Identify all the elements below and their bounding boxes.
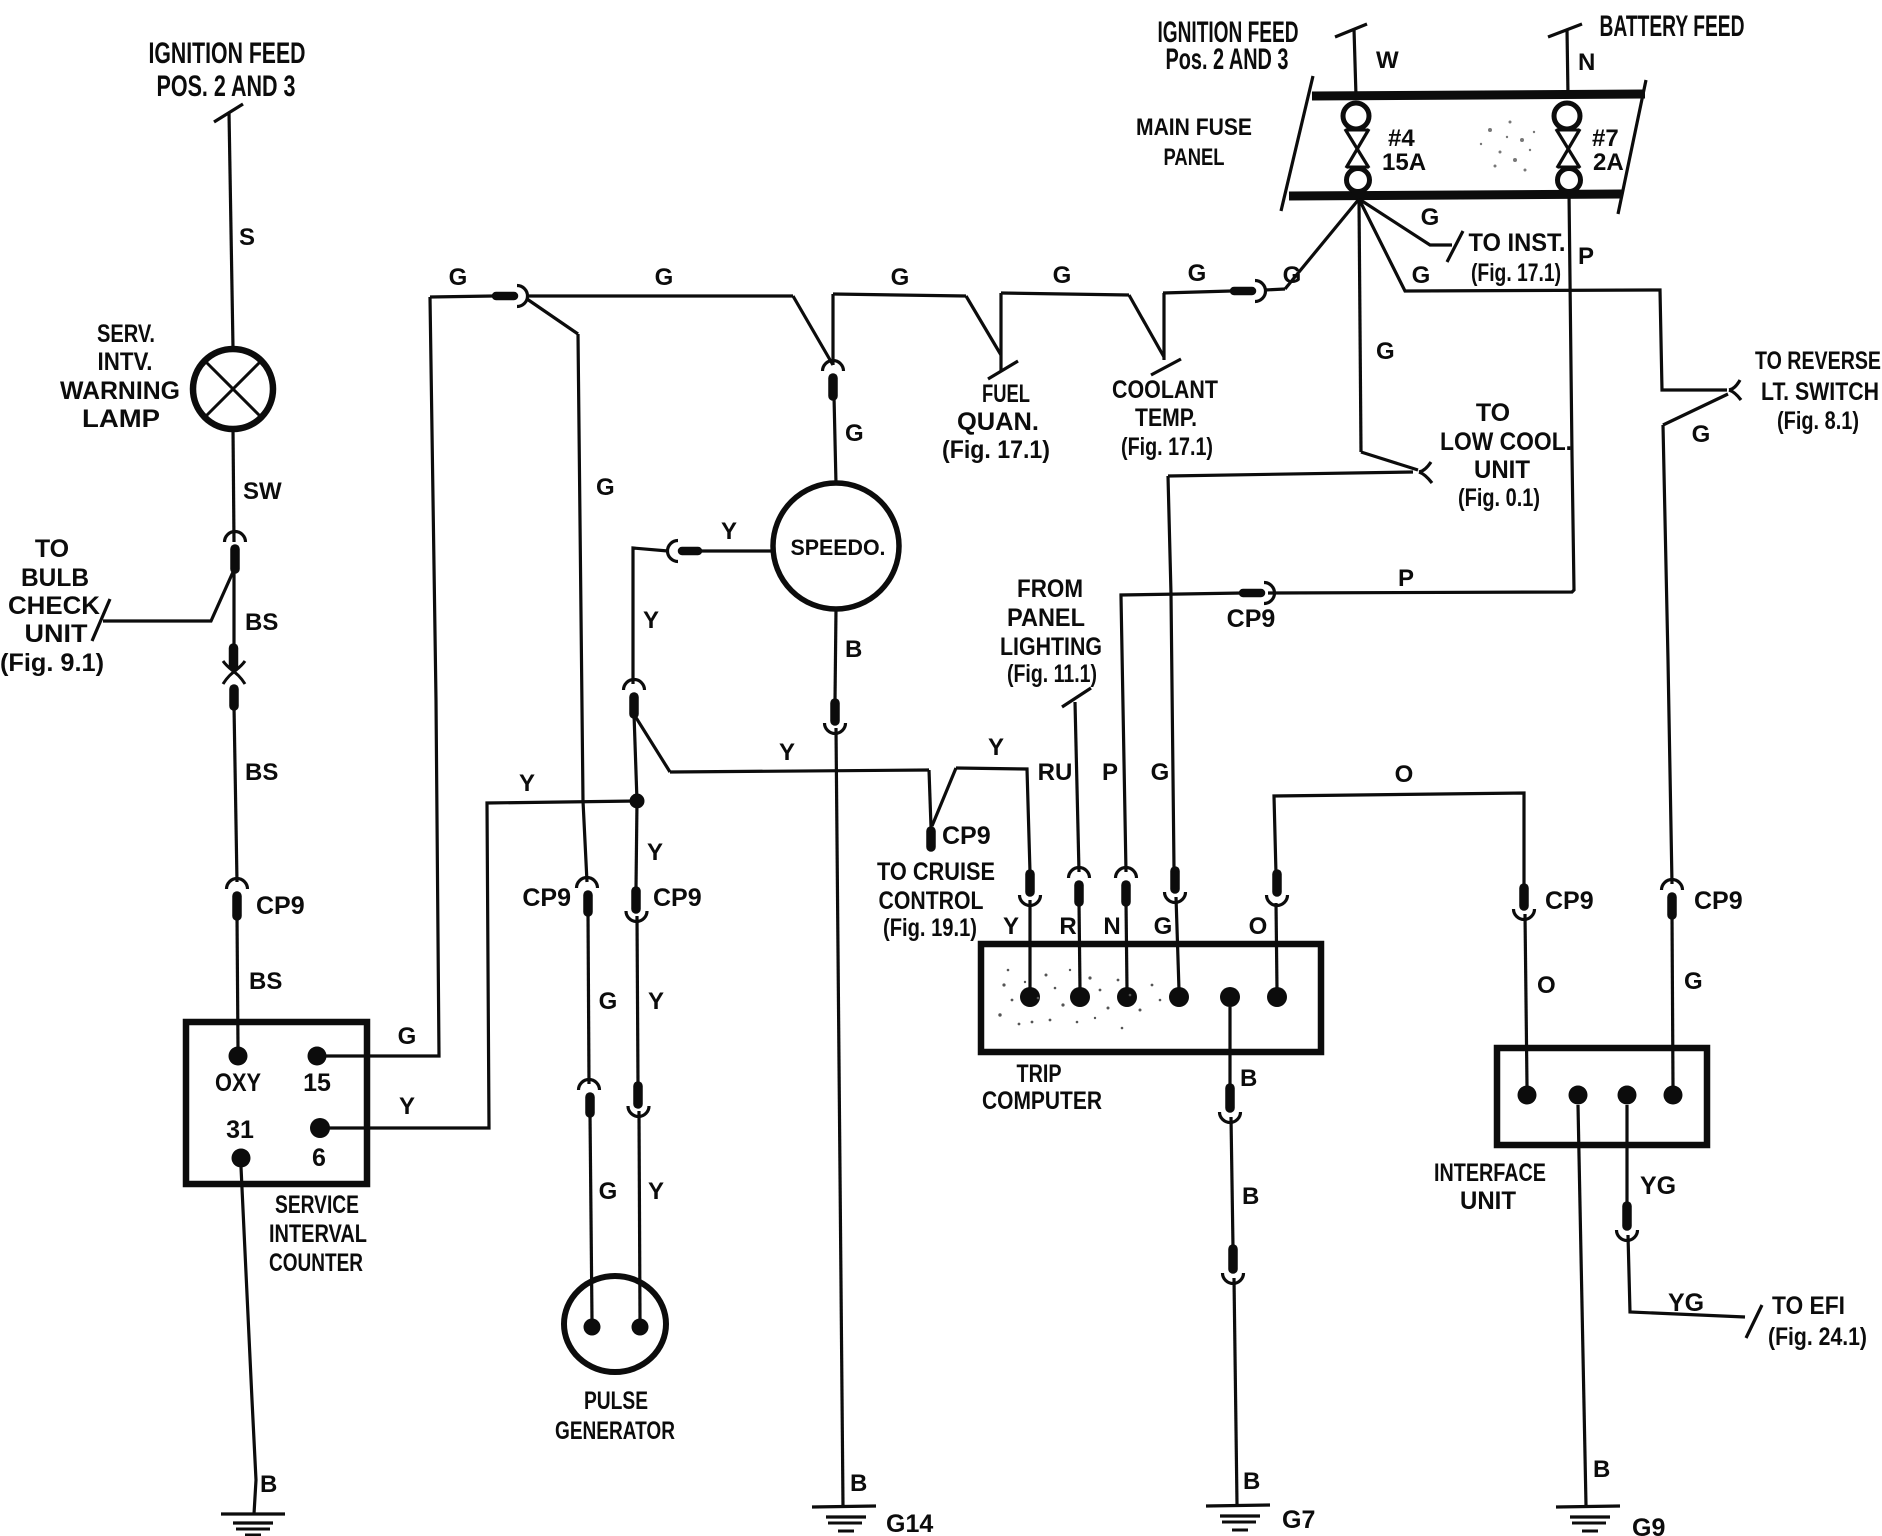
wire Y (down from speedo connector)	[633, 548, 668, 684]
svg-text:INTERVAL: INTERVAL	[269, 1220, 367, 1248]
terminal B (trip)	[1220, 987, 1240, 1007]
svg-text:YG: YG	[1640, 1172, 1676, 1200]
svg-text:CP9: CP9	[522, 884, 571, 912]
svg-text:G: G	[449, 264, 468, 291]
svg-text:LIGHTING: LIGHTING	[1000, 633, 1102, 661]
connector on trip G wire	[1165, 871, 1186, 903]
generator PULSE GENERATOR	[555, 1276, 675, 1445]
connector on speedo Y wire	[668, 541, 699, 562]
box INTERFACE UNIT	[1434, 1048, 1707, 1215]
wire G bus segment F (to fuse panel)	[1265, 199, 1359, 290]
connector CP9 on BS wire	[227, 879, 305, 920]
svg-text:G7: G7	[1282, 1506, 1315, 1534]
svg-text:B: B	[1243, 1468, 1260, 1495]
wire Y (fork to trip computer Y pin)	[956, 768, 1030, 872]
svg-text:Y: Y	[648, 988, 664, 1015]
wire G (CP9 to interface unit)	[1672, 915, 1703, 1086]
wire to bulb check unit	[92, 572, 233, 641]
wire G (reverse junction down to interface)	[1663, 394, 1728, 884]
svg-text:LT. SWITCH: LT. SWITCH	[1761, 378, 1879, 406]
svg-text:B: B	[1240, 1065, 1257, 1092]
wire Y bus (to trip computer)	[670, 739, 929, 772]
svg-text:G: G	[1692, 421, 1711, 448]
svg-text:TO INST.: TO INST.	[1469, 229, 1566, 257]
box SERVICE INTERVAL COUNTER	[186, 1022, 367, 1277]
svg-text:(Fig. 8.1): (Fig. 8.1)	[1777, 407, 1859, 435]
wire Y (counter 6 to junction)	[320, 770, 637, 1128]
connector CP9 on O wire	[1514, 887, 1594, 920]
connector on Y (lower)	[628, 1086, 649, 1117]
svg-text:LOW COOL.: LOW COOL.	[1440, 428, 1572, 456]
terminal 4 (interface, G)	[1664, 1086, 1683, 1105]
terminal G (trip)	[1169, 987, 1189, 1007]
wire Y (vertical through junction)	[634, 714, 637, 801]
node IGNITION FEED Pos. 2 AND 3 (right feed)	[1158, 16, 1299, 76]
wire B (speedo bottom)	[835, 609, 862, 701]
svg-text:G: G	[599, 988, 618, 1015]
connector on P wire (trip N pin)	[1116, 868, 1137, 903]
ground G7	[1206, 1505, 1315, 1534]
wire BS (middle)	[234, 706, 278, 882]
svg-text:P: P	[1102, 759, 1118, 786]
svg-text:SERV.: SERV.	[97, 320, 155, 348]
svg-text:PANEL: PANEL	[1164, 144, 1225, 171]
terminal N (trip)	[1117, 987, 1137, 1007]
svg-text:MAIN FUSE: MAIN FUSE	[1136, 114, 1252, 141]
node FROM PANEL LIGHTING (Fig. 11.1)	[1000, 575, 1102, 688]
ground G9	[1556, 1506, 1665, 1536]
connector on RU wire	[1069, 868, 1090, 903]
svg-text:GENERATOR: GENERATOR	[555, 1417, 675, 1445]
fuse #4 15A	[1343, 103, 1426, 192]
svg-text:QUAN.: QUAN.	[957, 408, 1039, 436]
svg-text:FROM: FROM	[1017, 575, 1083, 603]
wire G (fuse 4 to TO INST.)	[1359, 199, 1463, 262]
svg-text:POS. 2 AND 3: POS. 2 AND 3	[157, 70, 296, 103]
wire G (to speedo top)	[834, 396, 864, 484]
wire G (to pulse generator)	[590, 1113, 617, 1320]
lamp SERV. INTV. WARNING LAMP	[60, 320, 273, 433]
svg-text:B: B	[1242, 1183, 1259, 1210]
ground (below counter)	[221, 1514, 285, 1535]
svg-text:TO EFI: TO EFI	[1772, 1292, 1845, 1320]
svg-text:TO: TO	[35, 535, 69, 563]
node TO REVERSE LT. SWITCH (Fig. 8.1)	[1755, 347, 1881, 435]
svg-text:TO: TO	[1476, 399, 1510, 427]
wire G branch COOLANT TEMP.	[1129, 293, 1181, 375]
svg-text:P: P	[1398, 565, 1414, 592]
svg-text:COUNTER: COUNTER	[269, 1249, 363, 1277]
svg-text:S: S	[239, 224, 255, 251]
svg-text:TO CRUISE: TO CRUISE	[877, 858, 995, 886]
wire G (trip feed to low coolant connector)	[1168, 472, 1413, 476]
svg-text:(Fig. 19.1): (Fig. 19.1)	[883, 914, 977, 942]
svg-text:Y: Y	[721, 518, 737, 545]
svg-text:G: G	[1283, 262, 1302, 289]
svg-text:(Fig. 24.1): (Fig. 24.1)	[1768, 1323, 1867, 1351]
terminal 2 (interface, B)	[1569, 1086, 1588, 1105]
svg-text:G: G	[398, 1023, 417, 1050]
node IGNITION FEED POS. 2 AND 3 (left feed)	[149, 37, 306, 122]
wire G bus segment E	[1163, 260, 1231, 293]
svg-text:B: B	[260, 1471, 277, 1498]
wire Y (CP9 to lower connector)	[637, 916, 664, 1084]
svg-text:Y: Y	[648, 1178, 664, 1205]
svg-text:TO REVERSE: TO REVERSE	[1755, 347, 1881, 375]
svg-text:W: W	[1376, 47, 1399, 74]
svg-text:O: O	[1537, 972, 1556, 999]
svg-text:Y: Y	[988, 734, 1004, 761]
svg-text:B: B	[1593, 1456, 1610, 1483]
svg-text:CP9: CP9	[653, 884, 702, 912]
wire R (to trip terminal R)	[1059, 902, 1080, 990]
connector on Y drop	[624, 680, 645, 715]
svg-text:G: G	[1376, 338, 1395, 365]
wire O (trip terminal O up and right)	[1249, 761, 1524, 990]
wire BS (lower, to counter)	[237, 916, 282, 1048]
terminal O (trip)	[1267, 987, 1287, 1007]
svg-text:G: G	[1154, 913, 1173, 940]
terminal 15	[303, 1047, 331, 1098]
svg-text:Y: Y	[643, 607, 659, 634]
svg-text:CONTROL: CONTROL	[879, 887, 984, 915]
wire Y (to trip terminal Y)	[1003, 900, 1030, 990]
svg-text:Y: Y	[399, 1093, 415, 1120]
wire N (to trip terminal N)	[1103, 902, 1127, 990]
terminal 3 (interface, YG)	[1618, 1086, 1637, 1105]
svg-text:INTV.: INTV.	[98, 348, 153, 376]
wire B (trip computer to ground G7)	[1220, 1007, 1261, 1504]
connector on speedo G feed	[823, 361, 844, 396]
connector TO REVERSE LT. SWITCH	[1729, 380, 1741, 400]
svg-text:(Fig. 17.1): (Fig. 17.1)	[1471, 259, 1561, 287]
svg-text:(Fig. 17.1): (Fig. 17.1)	[1121, 433, 1213, 461]
wire Y (junction down to CP9)	[636, 801, 663, 888]
svg-text:FUEL: FUEL	[982, 380, 1030, 408]
svg-text:(Fig. 17.1): (Fig. 17.1)	[942, 436, 1050, 464]
fuse #7 2A	[1554, 103, 1624, 192]
wire B (to ground G14)	[836, 728, 867, 1506]
wire P (fuse 7 down)	[1268, 192, 1594, 593]
svg-text:#7: #7	[1592, 125, 1619, 152]
connector on B wire	[825, 703, 846, 734]
wire O (CP9 to interface unit)	[1525, 914, 1556, 1086]
connector TO LOW COOL. UNIT	[1419, 462, 1432, 483]
wire G (low cool node down to trip computer)	[1151, 476, 1174, 868]
wire S (ignition feed to lamp)	[229, 112, 255, 348]
wire G (fuse 4 vertical drop)	[1359, 199, 1395, 452]
svg-text:SERVICE: SERVICE	[275, 1191, 359, 1219]
box TRIP COMPUTER	[981, 944, 1321, 1115]
node COOLANT TEMP. (Fig. 17.1)	[1112, 376, 1218, 461]
node TO CRUISE CONTROL (Fig. 19.1)	[877, 858, 995, 942]
svg-text:2A: 2A	[1593, 149, 1624, 176]
terminal 31	[226, 1116, 254, 1168]
wire P (CP9 to trip computer N pin)	[1102, 593, 1243, 872]
junction (Y wires)	[630, 794, 645, 809]
node TO EFI (Fig. 24.1)	[1768, 1292, 1867, 1351]
svg-text:G: G	[891, 264, 910, 291]
svg-text:Y: Y	[779, 739, 795, 766]
wire G (counter 15 up to bus)	[317, 297, 439, 1056]
svg-text:N: N	[1103, 913, 1120, 940]
terminal Y (trip)	[1020, 987, 1040, 1007]
wire G branch to speedo (dive + tee)	[793, 294, 833, 365]
svg-text:IGNITION FEED: IGNITION FEED	[149, 37, 306, 70]
connector on G bus (right)	[1234, 281, 1266, 302]
svg-text:CP9: CP9	[256, 892, 305, 920]
wire Y (connector to Y bus diagonal)	[635, 716, 670, 772]
wire YG (to EFI)	[1628, 1235, 1762, 1338]
svg-text:SW: SW	[243, 478, 282, 505]
svg-text:Pos. 2 AND 3: Pos. 2 AND 3	[1166, 43, 1289, 76]
ground G14	[812, 1506, 933, 1536]
svg-text:#4: #4	[1388, 125, 1415, 152]
svg-text:31: 31	[226, 1116, 254, 1144]
svg-text:R: R	[1059, 913, 1076, 940]
svg-text:PULSE: PULSE	[584, 1387, 648, 1415]
svg-text:G: G	[1421, 204, 1440, 231]
wire RU (panel lighting to trip computer)	[1038, 688, 1091, 872]
svg-text:G: G	[1188, 260, 1207, 287]
svg-text:TEMP.: TEMP.	[1135, 404, 1197, 432]
wire G (CP9 to lower connector)	[588, 912, 617, 1084]
wire G (to trip terminal G)	[1154, 897, 1179, 990]
terminal 1 (interface, O)	[1518, 1086, 1537, 1105]
svg-text:INTERFACE: INTERFACE	[1434, 1159, 1546, 1187]
svg-text:P: P	[1578, 243, 1594, 270]
node FUEL QUAN. (Fig. 17.1)	[942, 380, 1050, 464]
svg-text:B: B	[845, 636, 862, 663]
connector (bullet splice) on BS wire	[223, 648, 245, 706]
svg-text:Y: Y	[647, 839, 663, 866]
panel MAIN FUSE PANEL	[1136, 76, 1646, 214]
svg-text:BATTERY FEED: BATTERY FEED	[1600, 10, 1745, 43]
wire YG (interface down)	[1627, 1105, 1676, 1204]
svg-text:BS: BS	[245, 609, 278, 636]
wire Y (speedo left output)	[700, 518, 774, 551]
wire SW (lamp to connector)	[233, 429, 282, 542]
wire B (interface to ground G9)	[1578, 1105, 1610, 1505]
svg-text:(Fig. 11.1): (Fig. 11.1)	[1007, 660, 1097, 688]
svg-text:BS: BS	[245, 759, 278, 786]
node TO LOW COOL. UNIT (Fig. 8.1)	[1440, 399, 1572, 512]
connector CP9 on Y drop	[626, 884, 702, 922]
node TO BULB CHECK UNIT (Fig. 9.1)	[0, 535, 104, 677]
svg-text:G: G	[1412, 262, 1431, 289]
connector on G bus (left)	[496, 286, 528, 307]
svg-text:G: G	[596, 474, 615, 501]
wire G (fuse drop diagonal to low coolant connector)	[1361, 452, 1418, 470]
svg-text:O: O	[1249, 913, 1268, 940]
svg-text:UNIT: UNIT	[1460, 1187, 1516, 1215]
svg-text:N: N	[1578, 49, 1595, 76]
terminal OXY	[215, 1047, 261, 1098]
wire BS (upper)	[234, 569, 278, 646]
wire Y (to pulse generator)	[639, 1111, 664, 1320]
svg-text:CP9: CP9	[1694, 887, 1743, 915]
svg-text:BULB: BULB	[21, 564, 89, 592]
svg-text:CP9: CP9	[942, 822, 991, 850]
connector on YG wire	[1617, 1206, 1638, 1241]
connector on trip Y wire	[1020, 874, 1041, 906]
svg-text:CP9: CP9	[1227, 605, 1276, 633]
svg-text:WARNING: WARNING	[60, 377, 180, 405]
wire G bus segment A	[430, 264, 493, 297]
svg-text:UNIT: UNIT	[1474, 456, 1530, 484]
svg-text:TRIP: TRIP	[1017, 1060, 1062, 1088]
svg-text:SPEEDO.: SPEEDO.	[791, 535, 886, 560]
wire G bus segment B	[527, 264, 793, 296]
wire G bus segment D	[1001, 262, 1129, 295]
wire N (battery feed to fuse panel)	[1548, 24, 1595, 96]
svg-text:G: G	[1151, 759, 1170, 786]
svg-text:G: G	[1053, 262, 1072, 289]
svg-text:OXY: OXY	[215, 1069, 261, 1097]
connector (pin) on SW/BS wire	[225, 532, 246, 570]
svg-text:BS: BS	[249, 968, 282, 995]
svg-text:O: O	[1395, 761, 1414, 788]
svg-text:Y: Y	[1003, 913, 1019, 940]
node TO INST. (Fig. 17.1)	[1469, 229, 1566, 287]
terminal R (trip)	[1070, 987, 1090, 1007]
svg-text:CP9: CP9	[1545, 887, 1594, 915]
connector on G (lower)	[579, 1080, 600, 1114]
svg-text:Y: Y	[519, 770, 535, 797]
gauge SPEEDO.	[773, 483, 899, 609]
svg-text:COMPUTER: COMPUTER	[982, 1087, 1102, 1115]
svg-text:PANEL: PANEL	[1007, 604, 1085, 632]
wire G bus segment C	[833, 264, 966, 296]
svg-text:RU: RU	[1038, 759, 1073, 786]
svg-text:G: G	[1684, 968, 1703, 995]
svg-text:B: B	[850, 1470, 867, 1497]
terminal 6	[310, 1118, 330, 1172]
connector CP9 on G drop	[522, 878, 597, 913]
wire B (counter 31 to ground)	[241, 1167, 277, 1514]
speckles (fuse panel scan noise)	[1480, 121, 1535, 172]
wire Y fork and CP9 stub (cruise control)	[929, 734, 1004, 850]
svg-text:G: G	[845, 420, 864, 447]
connector CP9 on G wire (interface)	[1662, 880, 1743, 915]
svg-text:(Fig. 9.1): (Fig. 9.1)	[0, 649, 104, 677]
wire G (bus dive to left G drop)	[527, 299, 615, 882]
svg-text:6: 6	[312, 1144, 326, 1172]
svg-text:15: 15	[303, 1069, 331, 1097]
svg-text:15A: 15A	[1382, 149, 1426, 176]
speckles (trip computer scan noise)	[998, 969, 1161, 1030]
wire W (ignition feed to fuse panel)	[1335, 24, 1399, 96]
svg-text:G: G	[655, 264, 674, 291]
svg-text:G: G	[599, 1178, 618, 1205]
svg-text:UNIT: UNIT	[25, 620, 88, 648]
connector CP9 on P wire	[1227, 583, 1276, 634]
svg-text:LAMP: LAMP	[82, 405, 160, 433]
svg-text:COOLANT: COOLANT	[1112, 376, 1218, 404]
svg-text:(Fig. 0.1): (Fig. 0.1)	[1458, 484, 1540, 512]
svg-text:G9: G9	[1632, 1514, 1665, 1536]
wire G (fuse 4 to reverse light feed)	[1359, 199, 1727, 390]
svg-text:YG: YG	[1668, 1289, 1704, 1317]
svg-text:CHECK: CHECK	[8, 592, 100, 620]
wire G branch FUEL QUAN.	[966, 293, 1018, 379]
svg-text:G14: G14	[886, 1510, 933, 1536]
